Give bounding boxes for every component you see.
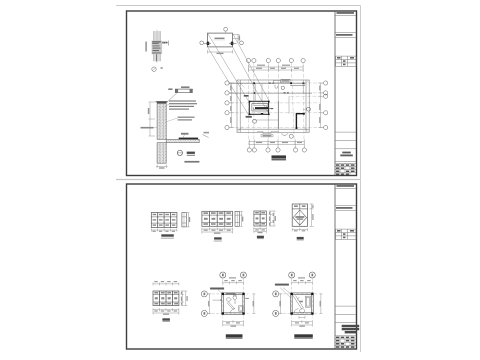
roof plan outline xyxy=(237,80,309,132)
callout bottom dim xyxy=(208,50,233,54)
roof plan grid circles top xyxy=(246,58,305,62)
lintel sub-detail xyxy=(166,86,193,103)
roof plan top dim rows xyxy=(249,65,304,72)
toilet 1 grid lines xyxy=(207,278,248,319)
window W2 side section xyxy=(235,211,243,226)
toilet 1 bottom dims xyxy=(223,320,244,326)
toilet 1 top dim xyxy=(223,281,244,284)
toilet 1 title xyxy=(226,334,243,337)
toilet 2 grid lines xyxy=(279,278,318,319)
page 1 right edge xyxy=(360,6,362,180)
sheet 1 table marks xyxy=(337,57,354,65)
wall cap xyxy=(156,101,168,103)
plan callout detail rectangle xyxy=(204,33,237,47)
gutter hook xyxy=(275,85,277,89)
wall section detail xyxy=(156,102,209,164)
sheet 1 title block top boxes xyxy=(335,15,356,66)
roof plan horizontal grid lines xyxy=(229,83,324,128)
window W3 elevation xyxy=(254,211,266,226)
sheet 2 title block top boxes xyxy=(335,189,356,240)
sheet 2 signature table xyxy=(335,336,356,349)
sheet 2 project name text xyxy=(336,207,353,209)
toilet 2 annotation xyxy=(275,284,289,286)
left vertical dimension xyxy=(149,102,158,136)
callout axis circle right xyxy=(240,41,244,45)
roof plan vertical grid lines xyxy=(249,63,305,148)
window W1 label xyxy=(161,234,174,236)
window W5 right dims xyxy=(181,291,188,306)
tee detail callout circle xyxy=(152,67,156,71)
gutter arc xyxy=(281,134,288,136)
sheet 1 title block bottom dividers xyxy=(335,132,356,163)
callout right dim xyxy=(233,34,240,42)
callout axis circle top xyxy=(224,27,228,31)
toilet 1 side dims xyxy=(208,294,256,314)
section detail label xyxy=(187,152,195,154)
window W5 bottom dims xyxy=(153,308,179,314)
small eave detail rect top xyxy=(274,79,291,83)
toilet 1 room walls xyxy=(222,293,245,315)
toilet 2 axis circle 4 xyxy=(309,272,315,278)
wall hatched band upper xyxy=(157,102,166,140)
roof plan left dim column xyxy=(230,83,235,128)
small callout circle on plan A xyxy=(253,119,257,123)
window W2 label xyxy=(214,237,222,239)
window W2 bottom dims xyxy=(202,228,233,234)
wall tee junction detail xyxy=(152,30,169,64)
roof ridge lines xyxy=(237,80,309,132)
wall hatched band lower xyxy=(157,143,166,164)
bottom dim under wall xyxy=(156,165,168,169)
toilet 1 right small dim text xyxy=(245,298,249,299)
window W1 bottom dim xyxy=(151,229,177,232)
toilet room hatched block xyxy=(252,104,268,111)
window W5 top dim xyxy=(153,282,179,285)
sheet 1 signature table xyxy=(335,163,356,175)
toilet 1 left leader arrow xyxy=(213,299,223,301)
sheet 2 drawing title text xyxy=(342,325,360,327)
left annotation text xyxy=(141,127,154,129)
finish layer label xyxy=(181,133,189,135)
toilet 2 wc dim xyxy=(299,316,305,319)
toilet 1 axis circle F xyxy=(201,310,207,316)
toilet 1 axis circle 3 xyxy=(220,272,226,278)
toilet 2 title xyxy=(294,334,313,337)
section note text xyxy=(184,161,199,163)
roof plan grid circles left xyxy=(225,81,229,130)
window W3 bottom dims xyxy=(254,227,266,233)
sheet 2 frame xyxy=(127,184,357,349)
sheet 1 frame xyxy=(127,11,357,176)
callout axis circle left xyxy=(200,41,204,45)
roof plan right dim column xyxy=(319,83,324,128)
toilet 1 axis circle G xyxy=(201,291,207,297)
annotation text block right of wall xyxy=(169,100,197,120)
zoom leader diagonals xyxy=(208,33,270,115)
page 1 top edge xyxy=(116,5,361,7)
leader from lintel to wall xyxy=(166,93,178,104)
sheet 2 title header text xyxy=(337,185,355,187)
sheet 1 title strip border xyxy=(334,11,336,176)
toilet 2 fixtures xyxy=(293,296,310,314)
page separator xyxy=(116,179,361,181)
door M1 elevation xyxy=(292,204,307,226)
toilet 2 corner columns xyxy=(291,293,314,315)
toilet 2 side dims xyxy=(279,294,322,314)
door M1 bottom dim xyxy=(292,228,307,231)
roof plan grid circles bottom xyxy=(247,148,306,152)
toilet 1 corner columns xyxy=(222,293,245,315)
toilet 2 room walls xyxy=(291,293,314,315)
door diamond xyxy=(299,209,301,226)
plan wall lines upper right xyxy=(229,83,312,93)
toilet 1 axis circle 4 xyxy=(240,272,246,278)
small callout circle on plan B xyxy=(289,134,293,138)
waterproof black strip xyxy=(179,138,198,140)
sheet 1 project name text xyxy=(336,34,353,36)
sheet 1 drawing title text xyxy=(342,152,351,154)
sheet 2 title strip border xyxy=(334,184,336,349)
window W5 elevation xyxy=(153,291,179,306)
annotation leaders xyxy=(165,104,178,122)
toilet 1 annotation xyxy=(210,288,224,290)
window W3 label xyxy=(257,236,264,238)
slope mark xyxy=(203,135,209,138)
window W1 side section xyxy=(182,213,190,227)
toilet 1 top wall text marks xyxy=(226,293,236,294)
toilet 2 top dim xyxy=(292,281,313,284)
toilet 2 axis circle F xyxy=(273,310,279,316)
page 2 right edge xyxy=(360,180,362,352)
toilet 1 fixtures xyxy=(226,295,237,313)
plan interior medium lines xyxy=(254,80,303,129)
roof plan bottom dim rows xyxy=(249,140,304,148)
window W1 elevation xyxy=(151,213,177,228)
plan lower inner detail xyxy=(257,132,279,137)
window W3 right dim stack xyxy=(269,211,276,226)
door M1 right dim xyxy=(310,204,314,226)
sheet 1 title header text xyxy=(337,12,355,14)
toilet 2 axis circle G xyxy=(273,291,279,297)
roof plan title xyxy=(272,155,287,158)
window W2 elevation xyxy=(202,211,233,226)
sheet 2 title block bottom dividers xyxy=(335,306,356,323)
sheet 2 table marks xyxy=(337,230,354,238)
toilet 2 bottom dims xyxy=(292,320,313,326)
roof plan grid circles right xyxy=(324,81,328,130)
toilet 2 axis circle 3 xyxy=(289,272,295,278)
toilet room thick walls xyxy=(249,101,268,114)
door M1 label xyxy=(297,237,304,239)
step roof thick wall xyxy=(296,114,304,128)
floor slab xyxy=(166,139,199,142)
small callout circle on plan D xyxy=(307,107,311,111)
tee detail rotated dim text xyxy=(145,42,147,52)
section detail callout circle xyxy=(177,150,182,155)
window W5 label xyxy=(162,318,170,320)
small callout circle on plan C xyxy=(281,86,284,89)
